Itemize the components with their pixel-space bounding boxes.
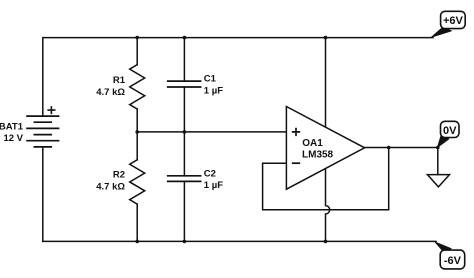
svg-text:4.7 kΩ: 4.7 kΩ <box>96 181 125 192</box>
svg-text:C1: C1 <box>204 73 217 84</box>
svg-text:LM358: LM358 <box>302 149 334 160</box>
svg-text:BAT1: BAT1 <box>0 122 24 133</box>
svg-text:OA1: OA1 <box>302 138 323 149</box>
svg-text:-6V: -6V <box>444 255 462 267</box>
svg-text:4.7 kΩ: 4.7 kΩ <box>96 87 125 98</box>
svg-text:1 µF: 1 µF <box>204 85 223 96</box>
svg-text:1 µF: 1 µF <box>204 180 223 191</box>
svg-text:+6V: +6V <box>443 15 464 27</box>
svg-text:C2: C2 <box>204 168 216 179</box>
svg-text:R2: R2 <box>113 169 125 180</box>
svg-text:0V: 0V <box>443 125 457 137</box>
svg-text:R1: R1 <box>113 75 126 86</box>
svg-text:12 V: 12 V <box>3 133 23 144</box>
